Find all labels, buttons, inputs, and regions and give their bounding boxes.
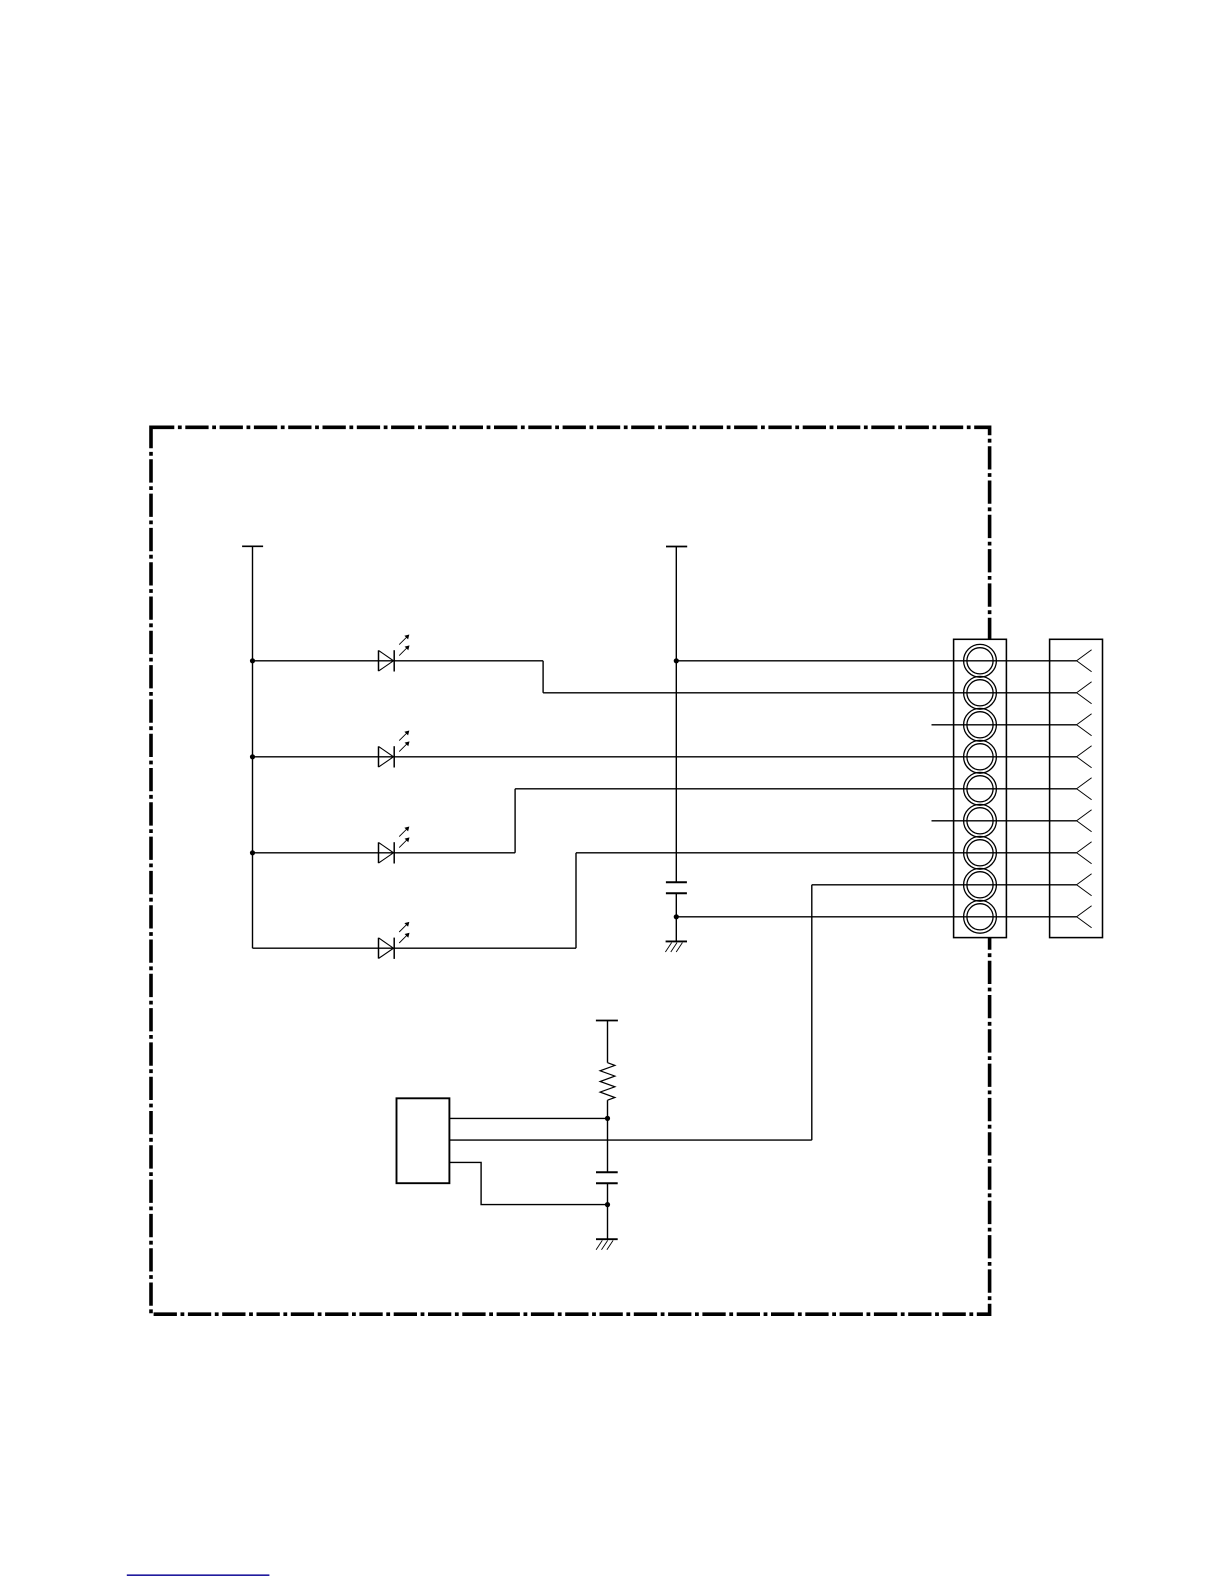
wire: LED3 row — [253, 852, 516, 854]
LED D3 — [379, 827, 410, 864]
wire: row 1 to connector pin 1 — [676, 660, 1076, 662]
node: rail V2 / row 1 — [674, 658, 679, 663]
wire: C2 to ground — [607, 1183, 609, 1239]
wire: rail V1 vertical — [252, 546, 254, 948]
wire: V3 to resistor — [607, 1021, 609, 1063]
wire: resistor to node — [607, 1100, 609, 1172]
wire: LED4 jog up — [575, 853, 577, 948]
wire: row 7 to connector pin 7 — [576, 852, 1077, 854]
wire: LED1 anode row — [253, 660, 544, 662]
LED D2 — [379, 731, 410, 768]
power rail V3 supply bar — [596, 1020, 618, 1022]
wire: U1 pin2 — [449, 1139, 811, 1141]
capacitor C1 — [666, 882, 687, 893]
board outline (dash-dot frame) — [151, 427, 990, 1314]
wire: row 8 to connector pin 8 — [812, 884, 1077, 886]
wire: U1 pin1 — [449, 1117, 607, 1119]
resistor R1 — [600, 1063, 615, 1101]
component U1 — [397, 1098, 450, 1183]
wire: row 6 stub to connector pin 6 — [932, 820, 1077, 822]
node: ground / row 9 — [674, 914, 679, 919]
node: R1 / U1 pin1 — [605, 1116, 610, 1121]
mating connector block — [1050, 639, 1103, 937]
ground G2 — [596, 1239, 618, 1250]
ground G1 — [665, 941, 687, 952]
node: rail V1 / LED1 — [250, 658, 255, 663]
node: rail V1 / LED3 — [250, 850, 255, 855]
wire: U1 pin3 stub — [449, 1162, 607, 1204]
wire: row 5 to connector pin 5 — [515, 788, 1077, 790]
footer link rule — [127, 1574, 270, 1576]
harness arrows — [1077, 650, 1092, 928]
wire: LED4 row — [253, 947, 577, 949]
LED D1 — [379, 635, 410, 672]
wire: LED2 row to connector pin 4 — [253, 756, 1077, 758]
wire: rail V2 vertical upper — [675, 547, 677, 883]
wire: row 8 vertical drop — [811, 885, 813, 1140]
connector CN1 pin rings — [964, 644, 997, 933]
node: C2 / U1 pin3 — [605, 1202, 610, 1207]
wire: LED1 jog down — [542, 661, 544, 693]
wire: row 2 to connector pin 2 — [543, 692, 1077, 694]
node: rail V1 / LED2 — [250, 754, 255, 759]
wire: C1 to ground — [675, 893, 677, 941]
LED D4 — [379, 922, 410, 959]
wire: LED3 jog up — [514, 789, 516, 853]
power rail V1 supply bar — [242, 545, 263, 547]
wire: row 3 stub to connector pin 3 — [932, 724, 1077, 726]
connector CN1 body — [954, 639, 1007, 937]
capacitor C2 — [596, 1172, 618, 1183]
power rail V2 supply bar — [666, 546, 687, 548]
wire: row 9 ground to connector pin 9 — [676, 916, 1076, 918]
